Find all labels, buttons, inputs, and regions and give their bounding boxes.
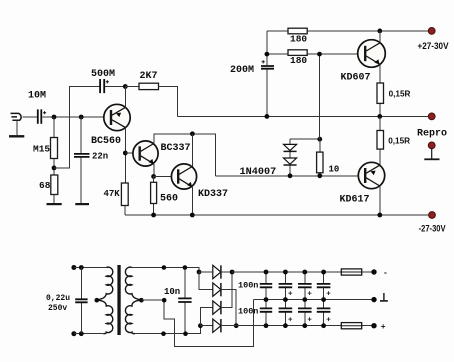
wire KD607 collector [379,31,381,43]
node W (center tap elbow) [162,298,167,303]
node E (BC560 collector / BC337 base) [123,151,128,156]
wire negative bus [125,214,430,216]
terminal Repro hot [417,113,447,140]
svg-text:+: + [381,323,386,332]
PSU ground rail [254,299,372,301]
wire 68 to ground [53,195,55,204]
filter cap bank column 1 100n [238,272,272,326]
diode D1 [199,265,232,278]
svg-text:BC560: BC560 [91,136,121,147]
svg-text:180: 180 [290,34,307,45]
resistor 560 [151,182,178,204]
transistor Q4 KD607 [341,40,386,84]
capacitor 10M [28,91,46,124]
resistor 68 [39,175,58,195]
node B (input/22n) [79,115,84,120]
wire diode top to node J [290,138,320,140]
PSU: mains input terminal bottom [71,331,76,336]
resistor M15 [33,138,58,159]
wire 200M bottom to Repro rail [266,70,268,117]
wire 22n to ground [80,158,82,204]
wire 500M to node D [105,86,125,88]
input jack J1 [11,113,22,135]
svg-text:+: + [307,317,312,325]
svg-text:0,15R: 0,15R [389,89,411,98]
svg-text:-: - [383,269,388,278]
nodes cap bank on plus rail [264,323,326,328]
terminal +27-30V [418,28,450,53]
svg-text:68: 68 [39,180,51,191]
svg-text:KD607: KD607 [341,73,371,84]
node T (0,22u bottom) [79,331,84,336]
wire KD607 emitter to 0,15R [379,64,381,116]
wire node A down to M15 [53,117,55,138]
wire BC560 emitter up [124,87,126,108]
wire 2K7 to output rail [159,87,178,117]
resistor 180 bottom [288,50,307,66]
fuse F2 (plus) [341,323,361,329]
svg-text:100n: 100n [238,280,258,290]
wire BC337 emitter down [153,164,155,177]
svg-text:47K: 47K [104,189,121,199]
svg-text:250v: 250v [48,304,67,313]
node Z (bridge AC1) [197,270,202,275]
wire node D to 2K7 [125,86,139,88]
wire secondary top [132,268,199,273]
PSU minus rail [232,271,372,273]
wire output rail (Repro rail) [178,115,430,117]
filter cap column 3 electrolytics [298,272,312,326]
svg-text:10n: 10n [164,287,180,297]
terminal minus output [371,269,388,278]
transistor Q5 KD617 [340,162,385,205]
filter cap column 2 electrolytics [279,272,293,326]
node O (200M on Repro rail) [265,114,270,119]
second 180 rail [267,53,365,55]
node F (BC337 collector / KD337 collector) [190,131,195,136]
wire KD337 emitter to bus [191,187,193,215]
node X (10n top) [183,265,188,270]
transistor Q2 BC337 [133,141,191,166]
wire node E to BC337 base [125,152,140,154]
node K (diode bottom on bias rail) [288,173,293,178]
node L (10 on bias rail) [317,173,322,178]
wire 560 to negative bus [153,177,155,216]
positive rail wire [267,30,430,32]
transistor Q3 KD337 [171,164,228,200]
terminal -27-30V [419,212,446,234]
transformer T1 secondary winding [125,267,141,334]
node I (KD337 emitter on bus) [190,213,195,218]
capacitor 10n [164,268,192,334]
svg-text:180: 180 [290,55,307,66]
ground (22n) [75,203,89,205]
diode D5 (1N4007 top) [284,139,297,151]
svg-text:0,22u: 0,22u [46,294,70,303]
node C (feedback junction) [52,166,57,171]
nodes cap bank on minus rail [264,270,326,275]
svg-text:-27-30V: -27-30V [419,223,446,233]
svg-text:Repro: Repro [417,129,447,140]
svg-text:+: + [307,291,312,299]
svg-text:200M: 200M [230,65,254,76]
wire node F to KD337 collector [191,134,193,167]
wire KD617 collector to bus [379,186,381,215]
diode D4 [200,319,221,332]
svg-text:500M: 500M [91,69,115,80]
resistor 47K [104,183,129,206]
wire node G to KD337 base [154,176,178,178]
diode D2 [213,283,236,326]
svg-text:+27-30V: +27-30V [418,41,450,52]
resistor 10 [317,139,340,176]
node AC (D2 cathode rail) [234,323,239,328]
svg-text:+: + [288,291,293,299]
wire bias rail to diodes [216,175,366,177]
svg-text:1N4007: 1N4007 [240,167,277,178]
node AB (D1 cathode rail) [230,270,235,275]
wire 47K to negative bus [124,206,126,216]
svg-text:+: + [326,291,331,299]
node J (diodes/10/180 junction) [317,137,322,142]
resistor 180 top [288,28,307,44]
wire C1 to BC560 base [42,116,111,118]
wire jack to C1 [23,116,37,118]
svg-text:560: 560 [160,194,178,205]
node R (KD617 on bus) [377,213,382,218]
svg-text:BC337: BC337 [161,143,191,154]
terminal ground output [371,293,388,302]
wire output to 0,15R bottom [379,116,381,165]
node secondary center tap [139,298,144,303]
node N (180/KD607 base line) [317,52,322,57]
nodes cap bank on ground rail [264,297,326,302]
resistor 0,15R top [377,83,411,103]
node primary center tap [95,298,100,303]
svg-text:+: + [288,317,293,325]
wire feedback node C to 500M [54,87,99,168]
ground (68) [47,203,62,205]
wire AC1 to D2 [199,272,213,290]
node V (secondary bottom stray) [161,331,166,336]
svg-text:0,15R: 0,15R [388,136,410,145]
terminal Repro return with ground [424,142,439,159]
wire 200M top [266,31,268,65]
svg-text:10M: 10M [28,91,46,102]
wire M15 to 68 [53,159,55,176]
filter cap column 4 electrolytics [317,272,331,326]
node U (secondary top stray) [162,265,167,270]
fuse F1 (minus) [341,269,361,275]
node M (200M/180 junction) [265,52,270,57]
capacitor 0,22u 250v [46,268,88,334]
svg-text:2K7: 2K7 [140,71,158,82]
wire secondary bottom [135,326,201,334]
svg-text:KD337: KD337 [198,189,228,200]
capacitor 22n [74,152,108,162]
PSU: mains input terminal top [71,265,76,270]
PSU plus rail [221,325,372,327]
resistor 0,15R bottom [377,131,410,150]
node Q (output junction) [377,114,382,119]
node A (input/M15) [52,115,57,120]
diode D3 [213,272,232,314]
svg-text:M15: M15 [33,144,50,155]
node D (500M/2K7/BC560 emitter) [123,84,128,89]
svg-text:100n: 100n [238,307,258,317]
node AA (bridge AC2) [198,323,203,328]
resistor 2K7 [139,71,159,90]
svg-text:KD617: KD617 [340,195,370,206]
wire center tap routing [141,300,253,347]
wire BC560 collector down to 47K [124,128,126,184]
transformer T1 primary winding [97,267,113,334]
wire AC2 to D3 [200,308,212,326]
label 1N4007 [240,167,277,178]
wire mains bottom [74,333,103,335]
wire BC337 collector up and across [154,134,216,176]
terminal plus output [371,323,386,332]
svg-text:+: + [326,317,331,325]
transformer T1 core [117,265,120,335]
svg-text:22n: 22n [92,152,108,162]
node S (0,22u top) [79,265,84,270]
svg-text:10: 10 [329,165,340,175]
ground (input jack) [9,135,24,137]
node G (BC337 emitter / 560 / KD337 base) [151,174,156,179]
node Y (10n bottom) [183,331,188,336]
capacitor 500M [91,69,115,93]
diode D6 (1N4007 bottom) [284,152,297,176]
node H (560 on bus) [151,213,156,218]
transistor Q1 BC560 [91,104,130,147]
wire mains top [74,267,106,269]
wire node B down to 22n [80,117,82,153]
capacitor 200M [230,60,274,76]
node P (KD607 collector on +rail) [377,29,382,34]
wire 180 line down to node J [319,54,321,139]
